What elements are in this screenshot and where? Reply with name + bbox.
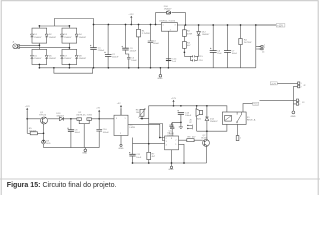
- svg-text:10k: 10k: [136, 112, 140, 114]
- svg-text:1N4007: 1N4007: [79, 58, 87, 60]
- svg-text:1: 1: [301, 83, 302, 85]
- svg-text:GND: GND: [291, 116, 296, 118]
- svg-text:7: 7: [175, 140, 176, 142]
- svg-text:2200uF: 2200uF: [112, 57, 119, 59]
- svg-text:J1: J1: [12, 42, 15, 44]
- svg-text:1: 1: [299, 100, 300, 102]
- svg-text:1: 1: [125, 118, 126, 120]
- svg-text:1: 1: [78, 119, 79, 121]
- svg-text:LM35: LM35: [130, 127, 136, 129]
- svg-text:+5V: +5V: [96, 107, 100, 109]
- svg-text:470R: 470R: [187, 33, 193, 35]
- svg-text:2: 2: [166, 138, 167, 140]
- svg-text:R8: R8: [188, 136, 192, 138]
- svg-text:1: 1: [163, 25, 164, 27]
- svg-text:LM7812_TO220: LM7812_TO220: [159, 20, 176, 22]
- svg-text:100uF: 100uF: [185, 115, 192, 117]
- svg-text:1N4007: 1N4007: [49, 37, 57, 39]
- svg-text:J3: J3: [302, 102, 305, 104]
- svg-text:1: 1: [264, 44, 265, 46]
- svg-text:2k7/3W: 2k7/3W: [244, 42, 252, 44]
- svg-text:+12V: +12V: [277, 24, 283, 27]
- svg-text:10uF: 10uF: [136, 157, 142, 159]
- svg-text:GND: GND: [82, 152, 87, 154]
- svg-text:RELE_A: RELE_A: [247, 119, 256, 122]
- svg-text:C15: C15: [199, 56, 204, 58]
- svg-text:+12V: +12V: [171, 98, 177, 100]
- svg-text:3: 3: [166, 141, 167, 143]
- svg-text:2: 2: [299, 104, 300, 106]
- svg-text:2200uF: 2200uF: [98, 50, 105, 52]
- svg-text:BC548: BC548: [201, 138, 207, 140]
- svg-text:4: 4: [166, 145, 167, 147]
- svg-text:3: 3: [175, 25, 176, 27]
- svg-text:+12V: +12V: [128, 14, 134, 16]
- svg-text:1N4007: 1N4007: [49, 58, 57, 60]
- svg-text:4k7: 4k7: [192, 136, 196, 138]
- svg-text:100uF: 100uF: [75, 132, 81, 134]
- svg-text:C16: C16: [199, 60, 204, 62]
- svg-text:100nF: 100nF: [232, 53, 238, 55]
- svg-text:LM78L05_TO92: LM78L05_TO92: [76, 115, 93, 117]
- svg-text:1N4007: 1N4007: [164, 8, 172, 10]
- svg-text:1: 1: [175, 144, 176, 146]
- svg-text:3: 3: [116, 118, 117, 120]
- svg-text:100nF: 100nF: [169, 133, 175, 135]
- svg-text:100nF: 100nF: [103, 132, 110, 134]
- svg-text:100nF: 100nF: [131, 60, 137, 62]
- svg-text:100nF: 100nF: [153, 43, 160, 45]
- svg-text:8: 8: [171, 138, 172, 140]
- svg-text:1N4007: 1N4007: [79, 37, 87, 39]
- svg-text:2: 2: [170, 30, 171, 32]
- svg-text:+12V: +12V: [25, 106, 31, 108]
- svg-text:LM311: LM311: [167, 135, 174, 137]
- svg-text:1N4007: 1N4007: [34, 58, 42, 60]
- svg-text:1N4007: 1N4007: [202, 34, 210, 36]
- svg-text:J4: J4: [262, 52, 265, 54]
- svg-text:10k/5W: 10k/5W: [29, 131, 37, 133]
- svg-text:2: 2: [301, 87, 302, 89]
- svg-text:+12V: +12V: [271, 83, 277, 85]
- svg-text:1N4007: 1N4007: [64, 37, 72, 39]
- svg-text:2200uF: 2200uF: [130, 51, 137, 53]
- svg-text:J2: J2: [303, 85, 306, 87]
- svg-text:4k7: 4k7: [187, 45, 191, 47]
- svg-text:1N4007: 1N4007: [210, 121, 218, 123]
- svg-text:2P: 2P: [189, 122, 192, 124]
- svg-text:BZ1: BZ1: [197, 119, 202, 121]
- svg-text:GND: GND: [119, 148, 124, 150]
- svg-text:+5V: +5V: [117, 103, 121, 105]
- svg-text:25uF: 25uF: [217, 53, 222, 55]
- svg-text:1N4007: 1N4007: [56, 115, 64, 117]
- svg-text:2: 2: [120, 133, 121, 135]
- svg-text:TIP120: TIP120: [39, 115, 47, 117]
- svg-text:4k7: 4k7: [152, 156, 156, 158]
- svg-text:1: 1: [240, 138, 241, 140]
- svg-text:2.7k/5W: 2.7k/5W: [142, 33, 151, 35]
- svg-text:3: 3: [88, 119, 89, 121]
- svg-text:LED: LED: [46, 143, 51, 145]
- svg-text:2: 2: [264, 47, 265, 49]
- svg-text:1N4007: 1N4007: [34, 37, 42, 39]
- svg-text:GND: GND: [158, 78, 163, 80]
- svg-text:1N4007: 1N4007: [64, 58, 72, 60]
- svg-text:VCC: VCC: [253, 104, 258, 106]
- svg-text:1u5: 1u5: [172, 61, 176, 63]
- svg-text:GND: GND: [169, 169, 174, 171]
